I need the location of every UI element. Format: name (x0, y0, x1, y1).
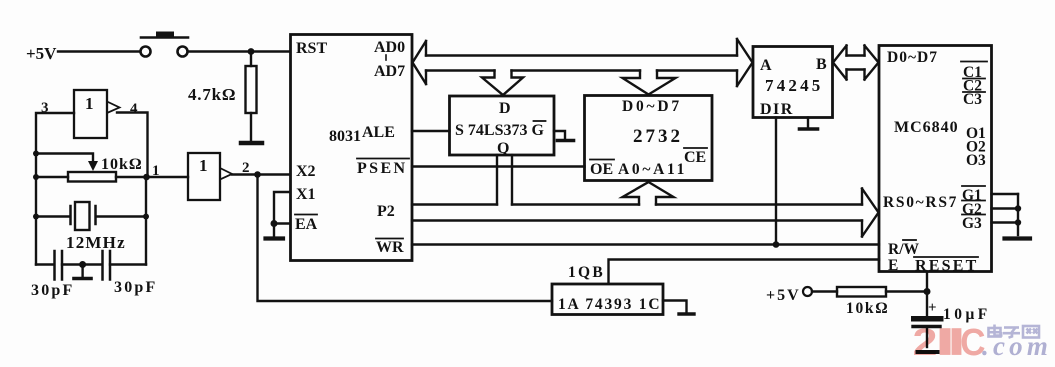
svg-text:10kΩ: 10kΩ (846, 300, 889, 317)
6840 pin label R/W (888, 240, 920, 258)
2732 pin label D0~D7 (622, 98, 682, 115)
+5V terminal circle (803, 287, 812, 296)
svg-text:C3: C3 (963, 91, 982, 108)
svg-text:1QB: 1QB (568, 264, 605, 281)
svg-text:CE: CE (684, 149, 706, 166)
node 1 label (152, 163, 160, 179)
373 part label S 74LS373 G (455, 121, 546, 139)
bus branch arrow down into 2732 D0~D7 (623, 71, 676, 95)
74245 part label (765, 76, 824, 95)
svg-text:ALE: ALE (362, 124, 395, 141)
wire WR to 6840 R/W (412, 243, 879, 245)
6840 pin label G1 (active low) (962, 186, 985, 204)
junction dot left rail / wiper (33, 151, 39, 157)
svg-text:RST: RST (296, 40, 327, 57)
value label 30pF left (31, 282, 74, 299)
svg-text:2: 2 (913, 320, 938, 363)
svg-text:2732: 2732 (633, 126, 683, 147)
svg-text:.com: .com (982, 331, 1052, 361)
wire pin3 to left rail (36, 113, 74, 265)
svg-text:A0~A11: A0~A11 (618, 161, 687, 178)
74245 pin label DIR (760, 101, 794, 118)
svg-text:1A 74393 1C: 1A 74393 1C (558, 296, 661, 313)
watermark chinese char zi (1003, 328, 1020, 338)
pin label WR (active low) (376, 239, 404, 257)
373 Q output bus shafts down to address bus (497, 155, 512, 205)
pin label EA (active low) (295, 215, 318, 234)
wire pushbutton to RST pin (188, 50, 290, 52)
address bus P2 bottom edge (412, 219, 862, 221)
ground at 373 G enable (554, 131, 574, 141)
svg-text:RS0~RS7: RS0~RS7 (883, 194, 958, 211)
wire resistor to RC node (886, 290, 927, 292)
ground at caps center (74, 265, 91, 279)
wire node2 down and right to 74393 1A (258, 175, 553, 302)
WATERMARK (913, 320, 1053, 363)
pin label PSEN (active low) (357, 159, 409, 178)
wire +5V to resistor (812, 290, 837, 292)
transceiver U5 74245 body (753, 47, 833, 118)
svg-text:Q: Q (497, 140, 509, 157)
junction dot right rail / crystal (143, 214, 149, 220)
bus branch arrow down into 74LS373 D (482, 71, 523, 96)
junction dot node 1 (143, 174, 150, 181)
6840 pin label C3 (active low) (963, 91, 985, 108)
junction dot caps center (79, 261, 86, 268)
svg-text:G3: G3 (962, 215, 982, 232)
svg-text:O3: O3 (966, 152, 986, 169)
6840 part label (894, 119, 959, 136)
svg-text:MC6840: MC6840 (894, 119, 959, 136)
bidirectional bus arrow 74245 B to 6840 D0~D7 (833, 46, 879, 80)
svg-text:X2: X2 (296, 163, 316, 180)
junction dot G2 rail (1015, 205, 1021, 211)
svg-text:+: + (928, 300, 937, 316)
svg-text:P2: P2 (377, 203, 395, 220)
right rail node1 down to caps (145, 177, 147, 265)
pin label AD7 (374, 63, 405, 80)
svg-text:OE: OE (590, 161, 613, 178)
6840 pin label D0~D7 (887, 49, 938, 66)
value label 10kOhm (101, 156, 143, 173)
value label 12MHz (66, 233, 126, 252)
watermark chinese char dian (989, 325, 1002, 337)
ground at gate rail (1005, 236, 1031, 240)
junction dot DIR on R/W line (773, 241, 780, 248)
74393 part label 1A 74393 1C (558, 296, 661, 313)
6840 pin label C2 (active low) (963, 78, 985, 95)
data bus AD0~AD7 top edge (426, 54, 737, 56)
watermark chinese char wang (1023, 326, 1039, 338)
74245 pin label B (816, 56, 827, 73)
ground at 74393 clear (663, 301, 694, 315)
junction dot left rail / crystal (33, 214, 39, 220)
pin label X2 (296, 163, 316, 180)
latch U3 74LS373 body (450, 96, 555, 155)
pin label ALE (362, 124, 395, 141)
address bus arrowhead into 6840 RS0~RS7 (862, 189, 879, 237)
data bus AD0~AD7 bottom edge segments (426, 69, 737, 71)
capacitor C1 30pF (55, 251, 63, 280)
data bus AD0~AD7 left arrowhead into 8031 (413, 41, 427, 84)
timer U6 MC6840 body (879, 46, 992, 272)
junction dot left rail / pot (33, 174, 39, 180)
svg-text:S 74LS373 G: S 74LS373 G (455, 122, 544, 139)
svg-text:X1: X1 (296, 186, 316, 203)
svg-text:10kΩ: 10kΩ (101, 156, 143, 173)
wire X1 to EA tie (274, 192, 290, 224)
capacitor C2 30pF (103, 251, 111, 280)
wire pot to node 1 and inverter2 input (116, 176, 188, 178)
svg-text:AD7: AD7 (374, 63, 405, 80)
svg-text:A: A (760, 57, 772, 74)
2732 pin label A0~A11 (618, 161, 687, 178)
data bus right arrowhead into 74245 A (737, 39, 753, 86)
gate rail vertical (1017, 194, 1019, 235)
svg-text:D0~D7: D0~D7 (622, 98, 682, 115)
svg-text:30pF: 30pF (31, 282, 74, 299)
value label 30pF right (114, 279, 157, 296)
svg-text:AD0: AD0 (374, 39, 405, 56)
junction node RST / 4.7k (248, 48, 255, 55)
wire DIR down to R/W line (775, 118, 777, 245)
wire +5V to pushbutton (58, 50, 140, 52)
wire PSEN to 2732 OE (412, 165, 585, 167)
address bus P2 top edge segments (412, 203, 862, 205)
value label 10kOhm (846, 300, 889, 317)
svg-text:E: E (888, 257, 898, 274)
junction dot node 2 (254, 171, 261, 178)
ground at 74245 enable (800, 118, 818, 130)
pin label AD0 (374, 39, 405, 56)
2732 part label (633, 126, 683, 147)
wire left rail to pot (36, 176, 68, 178)
svg-text:1: 1 (152, 163, 160, 179)
svg-text:DIR: DIR (760, 101, 794, 118)
wire ALE to 74LS373 (412, 130, 450, 132)
bus branch arrow up into 2732 A0~A11 (623, 182, 674, 205)
wire C1 to center ground node (62, 263, 102, 265)
pin 4 label (130, 101, 138, 117)
svg-text:74245: 74245 (765, 76, 824, 95)
svg-text:4.7kΩ: 4.7kΩ (188, 85, 236, 104)
pin label RST (296, 40, 327, 57)
wire E line from 74393 1QB to 6840 E (609, 260, 880, 284)
6840 pin label RS0~RS7 (883, 194, 958, 211)
ground at EA (266, 224, 284, 239)
pushbutton switch S1 (141, 32, 189, 57)
6840 pin label O2 (966, 139, 986, 156)
6840 pin label O3 (966, 152, 986, 169)
6840 pin label E (888, 257, 898, 274)
74393 pin label 1QB (568, 264, 605, 281)
wire tie to EA pin (274, 222, 290, 224)
value label 10uF (943, 306, 991, 323)
resistor R1 4.7kOhm pull-down (246, 52, 257, 141)
junction dot RC node (924, 288, 931, 295)
ground below capacitor C3 (918, 328, 938, 352)
6840 pin label G2 (active low) (962, 201, 985, 219)
watermark 21IC (913, 320, 986, 363)
wire G2 to gate rail (992, 207, 1019, 209)
potentiometer RP 10kOhm body (68, 172, 116, 182)
svg-text:+5V: +5V (766, 287, 801, 304)
svg-text:WR: WR (376, 239, 404, 256)
ground below 4.7k resistor (241, 141, 262, 146)
capacitor C3 10uF electrolytic (911, 292, 944, 327)
6840 pin label C1 (active low) (961, 62, 987, 82)
8031 part label (329, 128, 361, 145)
wire inverter2 output to X2 (232, 173, 290, 175)
6840 pin label O1 (966, 125, 986, 142)
crystal Y1 (36, 202, 146, 230)
74245 pin label A (760, 57, 772, 74)
pin label X1 (296, 186, 316, 203)
svg-text:PSEN: PSEN (357, 160, 408, 177)
wire G3 to gate rail (992, 221, 1019, 223)
svg-text:+5V: +5V (26, 44, 57, 63)
svg-text:B: B (816, 56, 827, 73)
wire RESET pin down to RC node (926, 272, 928, 292)
svg-text:D: D (499, 100, 511, 117)
counter U7 74393 body (552, 284, 663, 315)
6840 pin label G3 (active low) (962, 215, 985, 233)
EPROM U4 2732 body (585, 96, 713, 181)
junction dot G3 rail (1015, 219, 1021, 225)
wire C2 to right rail (110, 263, 146, 265)
resistor R2 10kOhm (837, 287, 886, 297)
svg-text:1: 1 (199, 156, 208, 175)
+5V supply label (reset circuit) (26, 44, 57, 63)
+5V supply label (6840 reset) (766, 287, 801, 304)
pin 3 label (41, 100, 49, 116)
inverter gate U1b (node1 to node2) (188, 153, 232, 200)
svg-text:30pF: 30pF (114, 279, 157, 296)
inverter gate U1a (pins 3-4) (74, 90, 120, 138)
svg-text:12MHz: 12MHz (66, 233, 126, 252)
svg-text:D0~D7: D0~D7 (887, 49, 938, 66)
ellipsis tick between AD0 and AD7 (385, 55, 387, 60)
6840 pin label RESET (active low) (914, 257, 978, 275)
pin label P2 (377, 203, 395, 220)
svg-text:4: 4 (130, 101, 138, 117)
373 pin label Q (497, 140, 509, 157)
bottom wire left rail to cap C1 (36, 263, 54, 265)
373 pin label D (499, 100, 511, 117)
junction dot X1/EA/ground (271, 220, 278, 227)
2732 pin label CE (active low) (684, 148, 707, 166)
svg-text:R/W: R/W (888, 241, 920, 258)
svg-text:1: 1 (85, 94, 94, 113)
svg-text:RESET: RESET (915, 258, 978, 275)
2732 pin label OE (active low) (590, 160, 614, 179)
svg-text:EA: EA (295, 216, 318, 233)
wire pin4 down to node 1 (117, 113, 148, 178)
potentiometer wiper arrow (36, 154, 98, 172)
value label 4.7kOhm (188, 85, 236, 104)
svg-text:8031: 8031 (329, 128, 361, 145)
microcontroller U2 8031 body (291, 35, 413, 261)
wire G1 to gate rail (992, 193, 1019, 195)
node 2 label (242, 160, 250, 176)
